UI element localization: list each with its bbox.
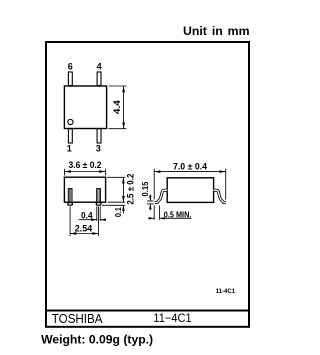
svg-text:6: 6 [68,61,73,71]
dimension 0.15 [147,195,154,211]
pin 3 (bottom-right) [97,129,101,143]
dimension 0.4 [79,206,106,221]
side view body [167,178,213,203]
pin 6 (top-left) [68,72,72,86]
dimension 2.5 +/- 0.2 [102,177,125,213]
svg-text:4.4: 4.4 [112,99,123,114]
title bar separator [45,310,250,312]
dimension 4.4 arrows [122,86,125,92]
svg-text:Weight: 0.09g (typ.): Weight: 0.09g (typ.) [41,333,153,347]
front view lead left [68,189,73,206]
dimension 7.0 +/- 0.4 [154,169,226,200]
front view lead right [96,189,101,206]
svg-text:1: 1 [67,144,72,154]
svg-text:2.5 ± 0.2: 2.5 ± 0.2 [125,174,135,205]
svg-text:Unit in mm: Unit in mm [183,24,250,38]
svg-text:11−4C1: 11−4C1 [153,311,191,325]
svg-text:3: 3 [96,144,101,154]
svg-text:4: 4 [97,61,102,71]
dimension 3.6 +/- 0.2 [65,169,106,176]
svg-text:11-4C1: 11-4C1 [216,288,236,295]
side view lead left [155,190,168,202]
top view body [64,86,106,129]
pin 4 (top-right) [97,72,101,86]
pin 1 (bottom-left) [68,129,72,143]
front view body [64,177,105,202]
svg-text:2.54: 2.54 [75,223,93,233]
pin 1 indicator circle [68,119,73,124]
svg-text:3.6 ± 0.2: 3.6 ± 0.2 [69,160,102,170]
dimension 0.5 MIN. [148,206,191,220]
side view lead right [213,190,226,202]
svg-text:7.0 ± 0.4: 7.0 ± 0.4 [173,161,207,171]
svg-text:0.5 MIN.: 0.5 MIN. [164,210,192,219]
svg-text:0.15: 0.15 [140,181,150,196]
outer frame [46,42,249,327]
svg-text:TOSHIBA: TOSHIBA [52,311,103,326]
svg-text:0.4: 0.4 [81,210,93,220]
dimension 2.54 [70,207,98,237]
dimension 4.4 extension lines [109,86,127,129]
svg-text:0.1: 0.1 [113,207,123,217]
